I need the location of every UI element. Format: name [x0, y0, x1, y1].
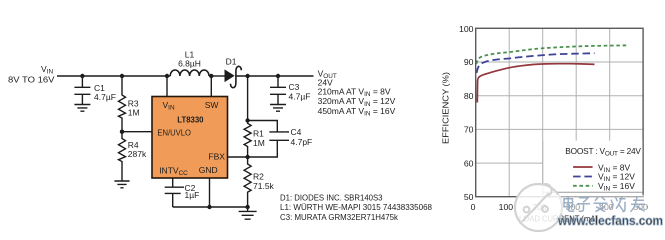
legend swatch green — [573, 185, 593, 187]
resistor R3 labels — [128, 99, 140, 118]
svg-text:100: 100 — [459, 24, 474, 34]
capacitor C4 labels — [291, 127, 313, 147]
junction GND pin/ground rail — [207, 205, 211, 209]
node FBX junction R1/R2/C4 — [245, 155, 249, 159]
svg-text:C4: C4 — [291, 127, 302, 137]
x axis labels — [471, 202, 648, 212]
watermark CJK text backdrop — [557, 195, 647, 214]
node VIN input labels — [8, 64, 55, 85]
resistor R1 — [244, 121, 251, 158]
IC U1 LT8330 body — [152, 97, 228, 179]
svg-text:1µF: 1µF — [185, 190, 200, 200]
svg-text:71.5k: 71.5k — [253, 181, 275, 191]
svg-text:C3: MURATA GRM32ER71H475k: C3: MURATA GRM32ER71H475k — [280, 212, 399, 222]
svg-text:8V TO 16V: 8V TO 16V — [8, 75, 55, 85]
watermark stamp circle — [515, 184, 562, 231]
svg-text:BOOST : VOUT = 24V: BOOST : VOUT = 24V — [565, 146, 641, 158]
junction R3/R4/EN — [120, 130, 124, 134]
svg-text:80: 80 — [464, 91, 474, 101]
resistor R1 labels — [253, 129, 265, 148]
svg-text:L1: WÜRTH WE-MAPI 3015 7443833: L1: WÜRTH WE-MAPI 3015 74438335068 — [280, 202, 432, 212]
chart frame — [476, 28, 643, 196]
chart curve VIN=12V (blue dashed) — [477, 53, 595, 73]
wire GND pin drop — [209, 178, 211, 207]
wire EN/UVLO to divider — [122, 131, 152, 133]
resistor R3 — [119, 76, 126, 132]
capacitor C1 — [74, 76, 90, 104]
inductor L1 — [167, 70, 211, 76]
svg-text:6.8µH: 6.8µH — [178, 59, 201, 69]
svg-text:1M: 1M — [253, 138, 265, 148]
capacitor C3 — [270, 76, 286, 104]
svg-text:LT8330: LT8330 — [177, 115, 203, 125]
junction SW pin/L1/D1 — [209, 74, 213, 78]
svg-text:450mA AT VIN = 16V: 450mA AT VIN = 16V — [318, 106, 396, 118]
wire FBX to divider — [228, 156, 248, 158]
resistor R4 — [119, 132, 126, 181]
wire diode-to-output rail — [237, 75, 314, 77]
y axis labels — [459, 24, 474, 202]
wire VIN pin drop — [166, 76, 168, 97]
legend swatch blue — [573, 176, 593, 178]
svg-text:70: 70 — [464, 125, 474, 135]
wire output node drop to R1 — [247, 76, 249, 121]
legend box — [543, 141, 642, 192]
svg-text:FBX: FBX — [208, 152, 225, 162]
svg-text:60: 60 — [464, 158, 474, 168]
chart curve VIN=8V (red) — [477, 64, 594, 103]
capacitor C2 — [165, 178, 184, 207]
svg-text:VIN = 16V: VIN = 16V — [598, 181, 635, 193]
ground under C1 — [74, 105, 90, 112]
ground under C3 — [270, 105, 286, 112]
capacitor C3 labels — [289, 82, 311, 102]
inductor L1 labels — [178, 50, 201, 69]
resistor R2 labels — [253, 172, 275, 192]
wire SW pin drop — [210, 76, 212, 97]
wire input rail — [57, 75, 167, 77]
svg-text:D1: D1 — [226, 56, 237, 66]
watermark CJK text — [564, 197, 645, 212]
junction R1 top/C4 — [245, 118, 249, 122]
svg-text:4.7µF: 4.7µF — [289, 92, 311, 102]
ground under R4 — [114, 181, 129, 188]
svg-text:GND: GND — [199, 165, 218, 175]
capacitor C2 labels — [185, 183, 200, 200]
junction VIN pin/L1 — [165, 74, 169, 78]
wire SW-to-diode segment — [211, 75, 225, 77]
svg-text:R2: R2 — [253, 172, 264, 182]
svg-text:www.elecfans.com: www.elecfans.com — [557, 213, 663, 228]
svg-text:1M: 1M — [128, 108, 140, 118]
wire bottom ground rail — [173, 206, 248, 208]
node VOUT junction D1/R1 — [245, 74, 249, 78]
svg-text:SW: SW — [205, 100, 219, 110]
svg-text:90: 90 — [464, 57, 474, 67]
capacitor C4 parallel wiring — [248, 121, 289, 158]
junction R3/input rail — [120, 74, 124, 78]
svg-text:287k: 287k — [128, 149, 147, 159]
wire R2 to ground — [247, 207, 249, 211]
capacitor C4 label tick — [285, 131, 289, 133]
legend labels — [598, 162, 635, 192]
junction C1/input rail — [80, 74, 84, 78]
svg-text:100: 100 — [499, 202, 514, 212]
resistor R2 — [244, 157, 251, 207]
node VOUT output labels — [318, 69, 396, 118]
ground main — [239, 211, 257, 219]
diode D1 — [225, 66, 241, 87]
svg-text:C3: C3 — [289, 82, 300, 92]
svg-text:0: 0 — [471, 202, 476, 212]
junction C3/output rail — [276, 74, 280, 78]
svg-text:EN/UVLO: EN/UVLO — [157, 128, 191, 138]
junction R2/ground rail — [245, 205, 249, 209]
legend swatch red — [573, 166, 593, 168]
chart gridlines — [476, 28, 643, 196]
chart curve VIN=16V (green dashed) — [476, 45, 627, 64]
notes — [280, 192, 432, 221]
resistor R4 labels — [128, 140, 147, 159]
svg-text:EFFICIENCY (%): EFFICIENCY (%) — [441, 72, 451, 144]
svg-text:50: 50 — [464, 192, 474, 202]
capacitor C1 labels — [94, 83, 116, 102]
svg-text:D1: DIODES INC. SBR140S3: D1: DIODES INC. SBR140S3 — [280, 192, 383, 202]
svg-text:4.7µF: 4.7µF — [94, 92, 116, 102]
svg-text:4.7pF: 4.7pF — [291, 137, 313, 147]
